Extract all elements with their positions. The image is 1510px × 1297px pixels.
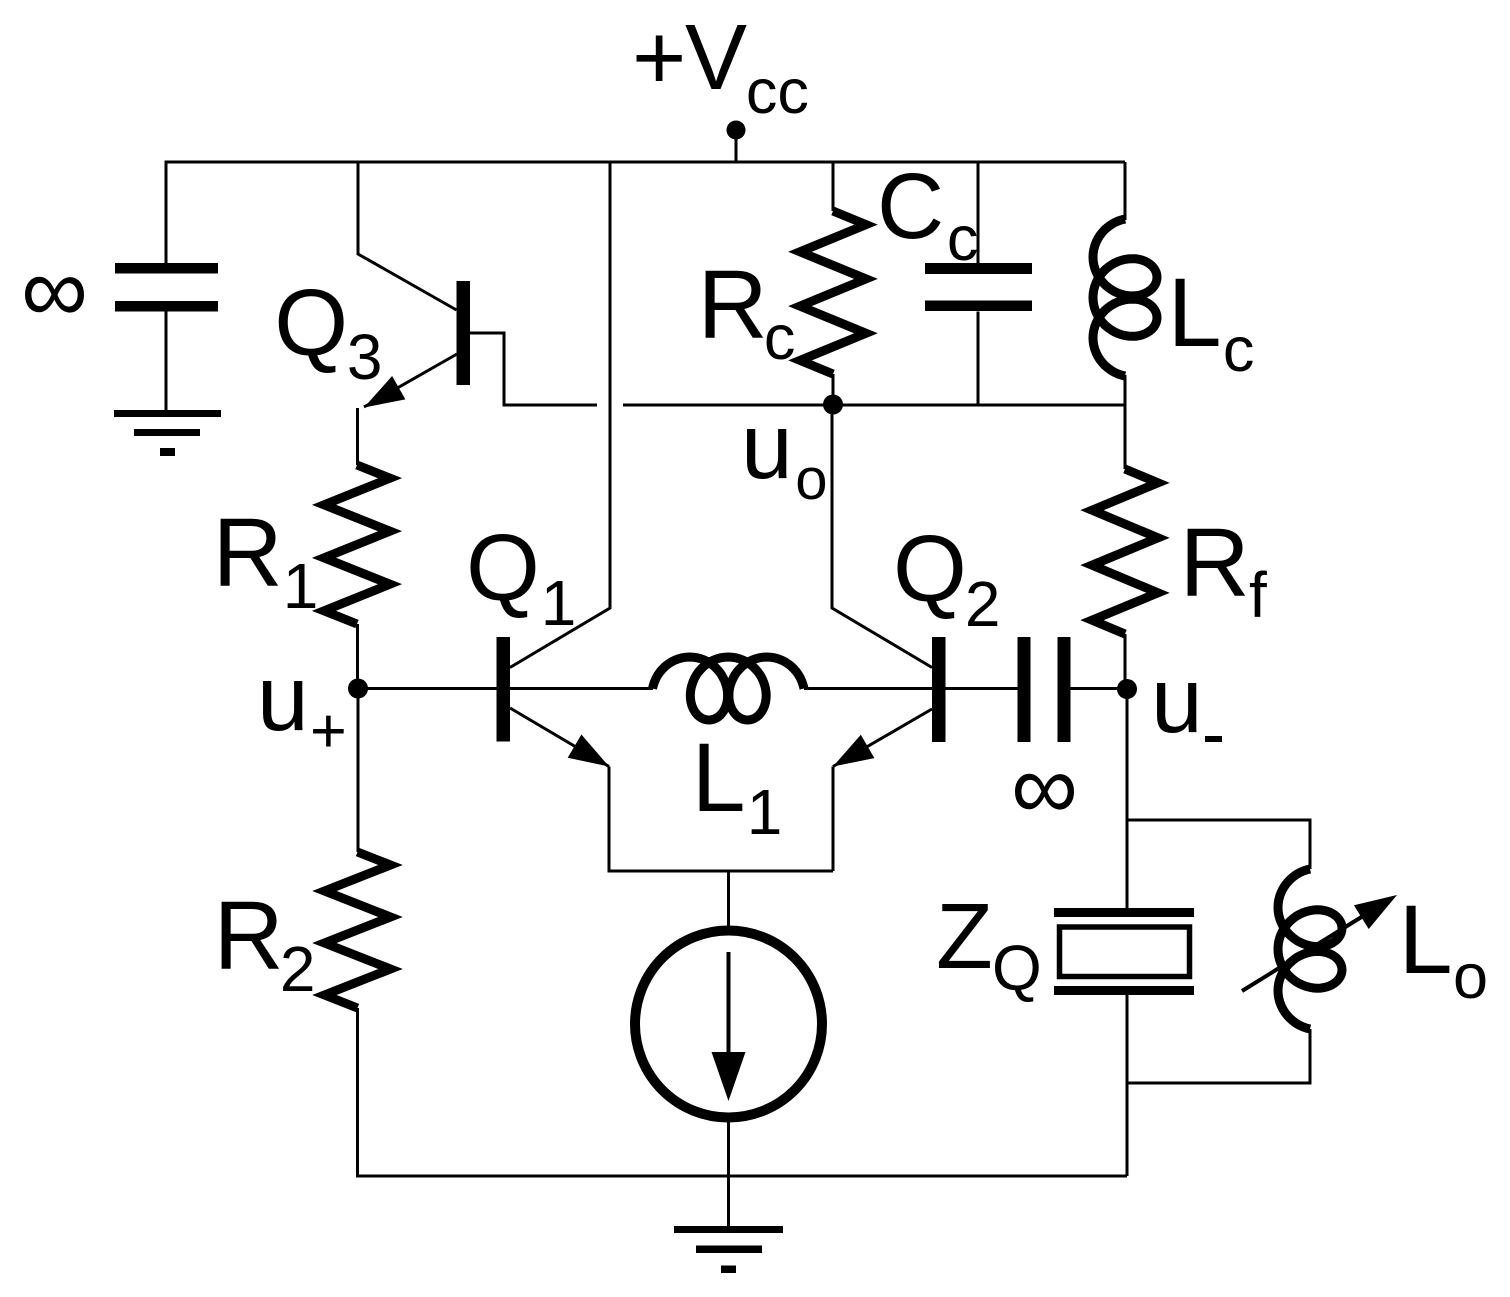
wire Q2 emitter down [832,767,835,872]
svg-text:R: R [1180,508,1250,617]
svg-text:Q: Q [992,932,1042,1004]
wire u- down to crystal [1126,689,1129,908]
capacitor Cc [877,154,1032,405]
wire Q3 base to node uo (jumps over vertical) [470,333,597,405]
wire Q3 collector branch [358,162,457,310]
node +Vcc [632,5,809,140]
wire R2 to bottom rail [356,1008,359,1178]
svg-text:L: L [1399,885,1453,994]
svg-text:L: L [692,723,746,832]
ground (left) [114,410,221,456]
wire u- branch to Lo top [1127,820,1310,869]
ground (bottom) [674,1226,783,1273]
svg-text:c: c [764,303,796,373]
inductor L1 [653,657,805,848]
capacitor infinity bypass (left) [21,237,218,342]
wire u+ to R2 [357,694,360,852]
svg-text:+: + [632,5,686,109]
svg-text:+: + [310,696,347,766]
wire Q1 base side to L1 [510,687,653,690]
wire emitter tap to current source [727,871,730,930]
svg-text:1: 1 [541,567,577,639]
transistor Q2 [833,516,1000,767]
wire left branch down to bypass cap [165,162,168,263]
svg-text:2: 2 [280,933,316,1005]
wire top supply rail [165,161,1126,164]
wire Q2 collector to uo [832,405,932,668]
svg-text:∞: ∞ [1011,734,1078,839]
wire current source to ground [727,1117,730,1226]
node u- [1117,648,1222,752]
svg-text:L: L [1168,258,1222,367]
svg-text:Q: Q [274,270,348,376]
svg-text:1: 1 [283,550,319,622]
svg-text:C: C [877,154,944,258]
inductor Lo (variable) [1242,869,1488,1029]
svg-text:cc: cc [746,57,809,127]
svg-text:f: f [1249,559,1267,631]
svg-text:u: u [741,394,793,498]
svg-text:∞: ∞ [21,237,88,342]
wire bottom ground rail [356,1175,1127,1178]
svg-text:c: c [1223,315,1255,385]
resistor Rc [698,162,866,404]
svg-text:1: 1 [747,776,783,848]
wire crystal to bottom rail [1126,995,1129,1176]
transistor Q3 [274,270,470,408]
svg-text:Q: Q [893,516,967,622]
wire Q2 base to coupling cap [946,687,1018,690]
inductor Lc [1093,162,1254,469]
wire Q1 emitter down and across [609,767,833,872]
svg-text:2: 2 [965,568,1001,640]
wire cap to ground [165,311,168,410]
wire cap to node u- [1071,687,1128,690]
svg-text:u: u [257,646,309,750]
crystal ZQ [936,884,1194,1004]
node u+ [257,646,368,766]
svg-text:R: R [213,498,283,607]
wire u+ to Q1 base [358,687,497,690]
resistor R1 [213,465,390,624]
svg-text:Q: Q [466,515,540,621]
svg-text:o: o [795,447,827,512]
svg-text:3: 3 [347,321,383,393]
svg-text:u: u [1151,648,1203,752]
current source I [635,931,822,1118]
wire L1 to Q2 [804,687,932,690]
resistor R2 [214,852,391,1008]
resistor Rf [1092,469,1267,689]
svg-text:Z: Z [936,884,993,988]
wire R1 to node u+ [356,624,359,688]
wire Vcc stub [735,139,738,163]
capacitor infinity coupling (series) [1011,637,1078,839]
node uo [741,394,843,512]
svg-text:o: o [1453,942,1488,1012]
wire Q3 emitter to R1 [356,408,359,465]
svg-text:V: V [685,5,747,109]
wire Q1 collector vertical [510,162,610,668]
wire Lo bottom to crystal leg [1127,1029,1310,1083]
svg-text:R: R [214,881,284,990]
svg-text:c: c [947,204,979,274]
svg-text:R: R [698,250,768,359]
transistor Q1 [466,515,609,767]
